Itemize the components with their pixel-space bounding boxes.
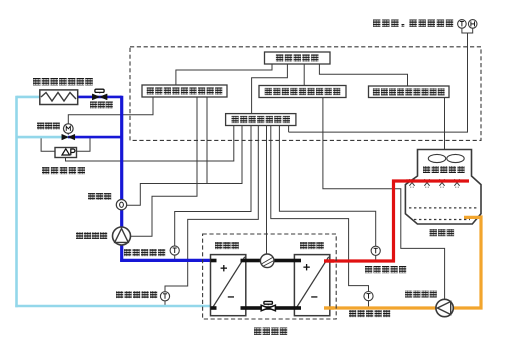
temperature sensor T2 on chilled return: [160, 292, 169, 301]
wire ambient sensor connector: [462, 28, 473, 33]
expansion valve on bottom pipe: [261, 301, 275, 310]
wire condenser water return (orange) tower to pump to condenser: [328, 217, 481, 308]
box field fuzzy control 现场模糊控制箱: [226, 114, 296, 126]
label 风机智能控制柜(箱): [373, 88, 445, 95]
flow meter 流量计: [116, 200, 126, 210]
label 环境温、湿度传感器: [373, 20, 453, 27]
box fuzzy control 模糊控制箱: [265, 52, 331, 64]
box fan intelligent cabinet 风机智能控制柜(箱): [369, 86, 450, 98]
wire fuzzy control box to fan cabinet: [319, 64, 407, 86]
wire fan cabinet to cooling tower fan: [444, 98, 446, 163]
temperature sensor T4 on cooling return: [364, 292, 373, 301]
wire ambient T/H sensors to field box: [289, 33, 468, 132]
label 模糊控制箱: [276, 54, 319, 61]
wire field box to differential pressure sensor: [66, 126, 234, 162]
wire condenser water supply (red) condenser to cooling tower: [328, 181, 469, 261]
wire field box to cooling supply temperature sensor T3: [279, 126, 375, 247]
bypass valve 旁通阀 motorized: [62, 124, 75, 140]
red spray pipe inside tower: [406, 179, 469, 182]
temperature sensor T1 on chilled supply: [170, 246, 179, 255]
label 冷冻水泵: [76, 232, 107, 239]
ambient temperature and humidity sensors T H: [458, 20, 467, 29]
wire bypass pipe cyan segment: [17, 136, 69, 139]
label 冷却水泵智能控制柜: [265, 88, 341, 95]
wire chilled supply pipe (blue): heat exchanger to two-way valve to riser: [41, 96, 122, 99]
wire field box to cooling return temperature sensor T4: [271, 126, 369, 292]
label 流量计: [88, 193, 111, 200]
wire fuzzy control box to field fuzzy box: [252, 64, 288, 114]
two-way valve 二通阀: [92, 89, 107, 100]
label 二通阀: [90, 102, 113, 109]
wire chilled supply horizontal (blue) to evaporator: [120, 259, 212, 262]
refrigerant pipe bottom: [211, 306, 217, 310]
wire field box to compressor: [266, 126, 268, 256]
refrigerant pipe top (evaporator-compressor-condenser): [211, 259, 217, 263]
wire field box to return temperature sensor T2: [165, 126, 258, 292]
condenser 冷凝器 box: [294, 255, 329, 316]
label 冷凝器: [300, 242, 324, 249]
evaporator 蒸发器 box: [211, 255, 246, 316]
orange outlet inside tower: [464, 216, 481, 219]
wire chilled pump cabinet to chilled water pump: [131, 97, 197, 236]
cooling tower 冷却塔 body: [405, 150, 481, 225]
temperature sensor T3 on cooling supply: [371, 246, 380, 255]
wire fuzzy control box to cooling pump cabinet: [303, 64, 305, 86]
wire differential pressure sensor tap left (to cyan bypass): [41, 138, 55, 151]
heat exchanger 末端热交换设备 box with zigzag: [40, 90, 78, 105]
label 冷冻水泵智能控制柜: [147, 87, 223, 94]
label 温度传感器: [365, 266, 406, 273]
spray nozzles: [409, 179, 459, 188]
label 空调机组: [254, 328, 287, 335]
label 旁通阀: [37, 123, 60, 130]
box chilled water pump intelligent cabinet 冷冻水泵智能控制柜: [142, 85, 227, 97]
label 末端热交换设备: [33, 78, 93, 85]
wire chilled supply riser (blue) down: [120, 96, 123, 262]
wire chilled return bottom (cyan) to evaporator: [15, 305, 212, 308]
label 现场模糊控制箱: [232, 116, 291, 123]
compressor circle on top pipe: [260, 254, 274, 268]
wire chilled pump cabinet to bypass valve motor: [68, 97, 153, 124]
wire fuzzy control box to chilled pump cabinet: [176, 64, 272, 85]
wire chilled pump cabinet auxiliary drop to flow meter line: [206, 97, 208, 184]
label 压差传感器: [42, 167, 85, 174]
condenser red outlet stub: [324, 259, 334, 262]
dashed box control system area: [130, 47, 481, 141]
wire chilled return pipe (cyan): heat exchanger to left riser: [17, 96, 42, 99]
pump chilled water pump 冷冻水泵: [113, 227, 131, 245]
wire cooling pump cabinet to cooling water pump: [323, 98, 445, 301]
label 蒸发器: [215, 242, 239, 249]
wire field box to flow meter: [127, 126, 242, 206]
differential pressure sensor ΔP box: [55, 148, 77, 158]
cooling tower fan blades: [428, 154, 464, 162]
wire bypass pipe blue segment: [68, 136, 123, 139]
wire chilled return riser (cyan): [15, 96, 18, 307]
label 温度传感器: [124, 249, 165, 256]
label 冷却水泵: [405, 291, 437, 298]
label 温度传感器: [349, 310, 390, 317]
label 冷却塔: [430, 229, 455, 236]
water level dashed lines: [409, 207, 478, 209]
wire field box junction to ambient sensor line: [288, 126, 290, 133]
condenser orange outlet stub: [324, 306, 334, 309]
label 冷却塔风机: [423, 166, 465, 173]
box cooling water pump intelligent cabinet 冷却水泵智能控制柜: [259, 86, 346, 98]
pump cooling water pump 冷却水泵: [436, 299, 453, 316]
dashed box air-conditioning unit 空调机组: [203, 234, 337, 319]
wire field box to supply temperature sensor T1: [175, 126, 251, 246]
label 温度传感器: [116, 291, 157, 298]
wire differential pressure sensor tap right (to blue bypass): [77, 138, 90, 151]
